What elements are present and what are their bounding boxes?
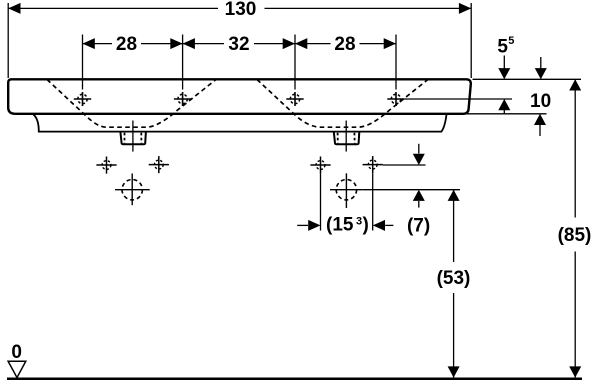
extension line bottom edge right bbox=[464, 113, 547, 115]
siphon 1 bbox=[115, 174, 150, 206]
dimension (53) bbox=[437, 190, 471, 378]
svg-text:0: 0 bbox=[11, 342, 22, 363]
svg-text:(7): (7) bbox=[407, 215, 430, 236]
dimension 5.5 bbox=[497, 35, 514, 114]
dimension 32 bbox=[183, 34, 295, 55]
drain fitting 1 bbox=[120, 132, 145, 144]
bowl 2 centerline bbox=[345, 121, 347, 152]
svg-text:(15: (15 bbox=[326, 214, 354, 235]
siphon 2 bbox=[330, 173, 363, 208]
bowl 1 centerline bbox=[132, 121, 134, 152]
drain fitting 2 bbox=[334, 132, 360, 144]
basin apron bbox=[33, 114, 447, 132]
extension line tap hole 4 centerline to right bbox=[405, 98, 512, 100]
dimension (15.3) bbox=[297, 214, 393, 235]
extension line tap hole 3 bbox=[294, 35, 296, 90]
extension line fixing hole 3 down bbox=[320, 174, 322, 231]
extension line siphon 2 right bbox=[363, 189, 460, 191]
extension line fixing hole 4 right bbox=[383, 164, 426, 166]
dimension 28 right bbox=[295, 34, 396, 55]
tap hole 3 bbox=[286, 92, 303, 106]
svg-text:5: 5 bbox=[497, 37, 508, 58]
extension line tap hole 1 bbox=[82, 35, 84, 90]
dimension 10 bbox=[530, 57, 551, 136]
svg-text:28: 28 bbox=[116, 34, 137, 55]
svg-text:10: 10 bbox=[530, 91, 551, 112]
tap hole 1 bbox=[74, 92, 91, 106]
svg-text:3: 3 bbox=[356, 216, 362, 228]
svg-text:5: 5 bbox=[508, 35, 514, 47]
extension line top edge right bbox=[473, 78, 582, 80]
extension line tap hole 4 bbox=[395, 35, 397, 90]
svg-text:130: 130 bbox=[225, 0, 257, 20]
svg-text:): ) bbox=[363, 214, 369, 235]
basin outline bbox=[8, 79, 471, 114]
tap hole 4 bbox=[387, 92, 404, 106]
bowl 1 dashed contour bbox=[47, 80, 216, 128]
svg-text:32: 32 bbox=[228, 34, 249, 55]
dimension 130 bbox=[8, 0, 471, 78]
dimension (85) bbox=[558, 79, 592, 377]
fixing hole 3 bbox=[310, 157, 330, 174]
floor line bbox=[7, 378, 582, 381]
fixing hole 2 bbox=[149, 156, 169, 173]
extension line tap hole 2 bbox=[182, 35, 184, 90]
datum symbol 0 bbox=[8, 342, 26, 377]
fixing hole 1 bbox=[96, 157, 116, 174]
svg-text:28: 28 bbox=[334, 34, 355, 55]
dimension (7) bbox=[407, 144, 430, 237]
tap hole 2 bbox=[174, 92, 191, 106]
extension line fixing hole 4 down bbox=[372, 173, 374, 230]
svg-text:(85): (85) bbox=[558, 225, 592, 246]
bowl 2 dashed contour bbox=[257, 80, 428, 128]
fixing hole 4 bbox=[363, 156, 383, 173]
dimension 28 left bbox=[83, 34, 183, 55]
svg-text:(53): (53) bbox=[437, 268, 471, 289]
